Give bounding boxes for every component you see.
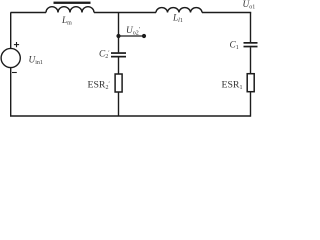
inductor L_m	[46, 7, 94, 13]
resistor ESR2'	[115, 74, 122, 92]
wire: stub to terminal U_o2'	[119, 35, 145, 37]
terminal dot	[142, 34, 146, 38]
wire: C2' to ESR2'	[118, 58, 120, 75]
svg-text:ESR1: ESR1	[222, 79, 243, 91]
plus polarity mark	[14, 42, 19, 47]
wire: C1 to ESR1	[250, 47, 252, 73]
wire: ESR1 to bottom wire	[250, 92, 252, 117]
wire: top-right corner down to capacitor C1	[250, 13, 252, 43]
wire: ESR2' to bottom wire	[118, 92, 120, 116]
resistor ESR1	[247, 74, 254, 92]
voltage source U_in1	[1, 48, 20, 67]
capacitor C2'	[111, 52, 126, 57]
core bar of L_m	[54, 2, 91, 4]
wire: source top to top-left corner	[11, 13, 46, 49]
wire: source bottom to bottom-left corner	[10, 68, 12, 116]
minus polarity mark	[12, 72, 17, 74]
node junction dot	[116, 34, 120, 38]
wire: L_l1 to top-right corner	[202, 12, 251, 14]
wire: middle branch vertical (top wire to capacitor C2')	[118, 13, 120, 53]
inductor L_l1	[156, 8, 202, 13]
wire: L_m to L_l1	[94, 12, 156, 14]
capacitor C1	[244, 42, 258, 47]
bottom wire	[10, 115, 251, 117]
